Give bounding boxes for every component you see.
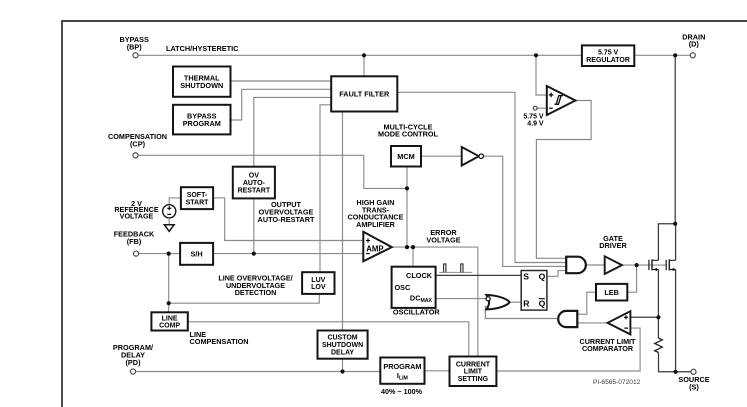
svg-text:OSC: OSC [395,283,412,292]
svg-text:CLOCK: CLOCK [406,271,433,280]
svg-text:LEB: LEB [604,288,619,297]
svg-text:Q: Q [539,272,546,282]
svg-text:40% ~ 100%: 40% ~ 100% [381,387,423,396]
svg-text:4.9 V: 4.9 V [527,121,544,128]
svg-text:PI-6565-072012: PI-6565-072012 [593,379,641,386]
svg-text:PROGRAM: PROGRAM [383,362,421,371]
svg-text:SOFT-START: SOFT-START [186,192,210,206]
svg-text:Q: Q [539,299,546,309]
svg-text:FAULT FILTER: FAULT FILTER [339,89,390,98]
svg-text:MULTI-CYCLEMODE CONTROL: MULTI-CYCLEMODE CONTROL [378,122,439,138]
svg-text:LATCH/HYSTERETIC: LATCH/HYSTERETIC [166,44,239,53]
svg-text:LINECOMP: LINECOMP [159,315,180,329]
svg-text:R: R [523,299,530,309]
svg-text:OSCILLATOR: OSCILLATOR [393,308,440,317]
svg-text:S: S [523,272,529,282]
svg-text:MCM: MCM [397,152,414,161]
svg-text:AMP: AMP [366,244,383,253]
svg-text:THERMALSHUTDOWN: THERMALSHUTDOWN [180,73,223,90]
svg-text:BYPASSPROGRAM: BYPASSPROGRAM [183,111,221,128]
svg-text:ERRORVOLTAGE: ERRORVOLTAGE [426,228,460,244]
svg-text:5.75 V: 5.75 V [523,113,544,120]
svg-text:CURRENT LIMITCOMPARATOR: CURRENT LIMITCOMPARATOR [580,337,637,353]
svg-text:LUVLOV: LUVLOV [311,277,326,291]
svg-text:S/H: S/H [191,249,203,258]
